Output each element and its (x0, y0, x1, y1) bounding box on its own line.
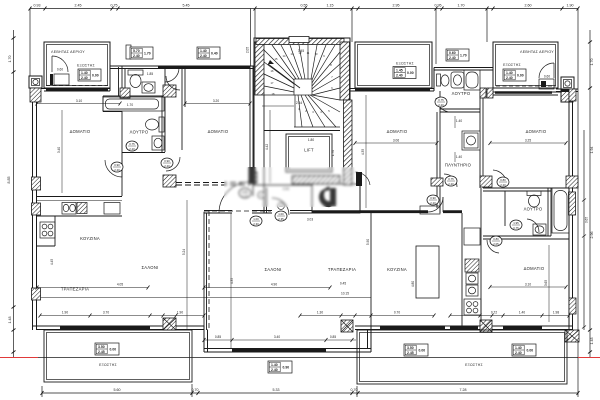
svg-text:ΕΞΩΣΤΗΣ: ΕΞΩΣΤΗΣ (503, 63, 521, 67)
right dimension line (589, 30, 591, 358)
svg-text:0.60: 0.60 (544, 75, 550, 79)
svg-text:0.60: 0.60 (57, 68, 63, 72)
svg-text:ΣΑΛΟΝΙ: ΣΑΛΟΝΙ (141, 265, 158, 270)
svg-text:0.90: 0.90 (164, 159, 170, 163)
door leaves (249, 167, 363, 186)
svg-text:0.70: 0.70 (394, 311, 400, 315)
top dimension line (30, 8, 578, 10)
svg-text:2.20: 2.20 (114, 168, 120, 172)
svg-text:4.90: 4.90 (271, 283, 277, 287)
landing square (294, 79, 312, 95)
svg-text:1.40: 1.40 (456, 119, 462, 123)
left apt: room1 walls (121, 66, 123, 96)
svg-text:0.80: 0.80 (493, 237, 499, 241)
slab edge line (38, 357, 578, 359)
right boiler room box (493, 42, 558, 88)
top mid wc fixtures (126, 45, 131, 59)
svg-text:ΔΟΜΑΤΙΟ: ΔΟΜΑΤΙΟ (208, 129, 229, 134)
svg-text:4.45: 4.45 (50, 259, 54, 265)
svg-text:1.70: 1.70 (331, 150, 335, 156)
svg-text:1.40: 1.40 (200, 49, 207, 53)
left apt kitchen counters (37, 215, 123, 217)
svg-text:ΠΛΥΝΤΗΡΙΟ: ΠΛΥΝΤΗΡΙΟ (445, 163, 472, 168)
svg-text:3.10: 3.10 (76, 99, 82, 103)
svg-text:0.45: 0.45 (340, 282, 346, 286)
left bath: sink top (142, 82, 155, 93)
vanity above island (420, 206, 440, 214)
middle bath tub (464, 70, 480, 90)
svg-text:2.30: 2.30 (253, 222, 259, 226)
svg-text:2.40: 2.40 (271, 368, 278, 372)
svg-text:ΕΞΩΣΤΗΣ: ΕΞΩΣΤΗΣ (77, 64, 95, 68)
svg-text:2.40: 2.40 (449, 56, 456, 60)
svg-text:0.93: 0.93 (34, 4, 41, 8)
svg-text:1.80: 1.80 (308, 138, 314, 142)
svg-text:ΚΟΥΖΙΝΑ: ΚΟΥΖΙΝΑ (80, 236, 100, 241)
dashed projection lines middle salon (204, 211, 271, 330)
svg-text:3.40: 3.40 (57, 147, 61, 153)
right kitchen column (464, 228, 480, 245)
middle bath wc (437, 74, 441, 86)
svg-text:0.75: 0.75 (111, 4, 118, 8)
top-left corner block (29, 76, 42, 88)
left boiler room box (44, 42, 110, 88)
svg-text:ΛΕΒΗΤΑΣ ΑΕΡΙΟΥ: ΛΕΒΗΤΑΣ ΑΕΡΙΟΥ (51, 50, 85, 54)
svg-text:2.35: 2.35 (278, 217, 284, 221)
svg-text:ΕΞΩΣΤΗΣ: ΕΞΩΣΤΗΣ (465, 363, 483, 367)
middle apt room3 walls (359, 184, 361, 213)
svg-text:1.00: 1.00 (253, 217, 259, 221)
svg-text:2.45: 2.45 (407, 351, 414, 355)
middle wc toilet (black) (319, 186, 334, 207)
svg-text:1.90: 1.90 (567, 4, 574, 8)
dim numbers left (7, 56, 12, 324)
svg-text:3.03: 3.03 (307, 218, 313, 222)
svg-text:ΔΟΜΑΤΙΟ: ΔΟΜΑΤΙΟ (70, 129, 91, 134)
svg-text:1.70: 1.70 (144, 52, 151, 56)
svg-text:2.20: 2.20 (448, 182, 454, 186)
svg-text:1.40: 1.40 (81, 71, 88, 75)
top wall under left boiler (31, 88, 110, 90)
room2 bottom dashed (176, 182, 250, 184)
svg-text:3.06: 3.06 (393, 139, 399, 143)
washing box (462, 131, 480, 150)
island middle kitchen (416, 246, 439, 298)
svg-text:3.20: 3.20 (213, 99, 219, 103)
dashed boiler bottoms (46, 85, 556, 88)
svg-text:3.50: 3.50 (407, 346, 414, 350)
svg-text:0.90: 0.90 (283, 366, 290, 370)
bottom exterior walls (33, 325, 205, 327)
svg-text:2.40: 2.40 (200, 54, 207, 58)
right cooktop (464, 299, 481, 315)
svg-text:0.00: 0.00 (527, 349, 534, 353)
svg-text:1.15: 1.15 (327, 4, 334, 8)
svg-text:1.45: 1.45 (396, 68, 403, 72)
svg-text:2.20: 2.20 (500, 183, 506, 187)
svg-text:ΔΟΜΑΤΙΟ: ΔΟΜΑΤΙΟ (387, 129, 408, 134)
svg-text:1.40: 1.40 (271, 363, 278, 367)
red lines (0, 357, 38, 359)
svg-text:ΛΟΥΤΡΟ: ΛΟΥΤΡΟ (524, 207, 543, 212)
svg-text:4.35: 4.35 (230, 278, 234, 284)
svg-text:1.40: 1.40 (519, 311, 525, 315)
washing machine (464, 133, 478, 148)
svg-text:0.00: 0.00 (110, 348, 117, 352)
right bath: wc (527, 191, 541, 196)
svg-text:0.00: 0.00 (92, 74, 99, 78)
appliance strip right kitchen (480, 188, 482, 326)
svg-text:1.70: 1.70 (127, 103, 133, 107)
stair core inner walls (263, 95, 265, 185)
svg-text:7.28: 7.28 (460, 388, 467, 392)
svg-text:2.20: 2.20 (129, 147, 135, 151)
left kitchen counter appliances (62, 203, 76, 215)
top wall mid (y=66) (110, 65, 256, 67)
middle kitchen right wall (461, 213, 463, 326)
right bath: sink (533, 224, 546, 235)
svg-text:2.20: 2.20 (438, 103, 444, 107)
top niche (289, 37, 309, 43)
svg-text:2.34: 2.34 (296, 101, 302, 105)
svg-text:3.25: 3.25 (525, 139, 531, 143)
top dim ticks (29, 7, 580, 11)
left cooktop (40, 222, 55, 238)
wall y=213 (204, 210, 232, 212)
svg-text:3.10: 3.10 (525, 283, 531, 287)
svg-text:1.70: 1.70 (458, 4, 465, 8)
X marks on some columns (163, 318, 579, 342)
svg-text:4.42: 4.42 (265, 144, 269, 150)
svg-text:2.05: 2.05 (246, 47, 250, 53)
svg-text:0.72: 0.72 (491, 311, 497, 315)
stair tread numbers (271, 51, 334, 114)
wall under top balcony / window (350, 88, 434, 90)
svg-text:1.40: 1.40 (515, 346, 522, 350)
svg-text:0.40: 0.40 (211, 52, 218, 56)
left exterior wall (double) (32, 76, 34, 330)
wall x=110 (109, 42, 111, 91)
lift box (286, 134, 332, 172)
fan treads radiating (264, 50, 294, 80)
svg-text:0.70: 0.70 (192, 388, 199, 392)
svg-text:5.70: 5.70 (133, 49, 140, 53)
svg-text:5.60: 5.60 (114, 388, 121, 392)
right exterior wall (568, 89, 570, 330)
svg-text:3.65: 3.65 (544, 280, 548, 286)
svg-text:1.94: 1.94 (590, 147, 594, 154)
svg-text:ΤΡΑΠΕΖΑΡΙΑ: ΤΡΑΠΕΖΑΡΙΑ (328, 267, 356, 272)
boiler L unit (54, 74, 69, 85)
svg-text:0.00: 0.00 (517, 74, 524, 78)
wall under right boiler (480, 91, 570, 93)
right apt walls (483, 187, 569, 189)
room2 right wall (249, 66, 251, 183)
middle kitchen divider x=371 (370, 213, 372, 326)
svg-text:1.90: 1.90 (62, 311, 68, 315)
svg-text:0.80: 0.80 (500, 178, 506, 182)
svg-text:1.48: 1.48 (8, 317, 12, 324)
dim numbers right (585, 59, 595, 345)
svg-text:1.98: 1.98 (553, 311, 559, 315)
svg-text:ΔΟΜΑΤΙΟ: ΔΟΜΑΤΙΟ (524, 266, 545, 271)
svg-text:1.70: 1.70 (8, 56, 12, 63)
left bath: tub (103, 97, 164, 111)
svg-text:0.85: 0.85 (330, 335, 336, 339)
dim numbers bottom (114, 388, 467, 392)
svg-text:1.95: 1.95 (513, 221, 519, 225)
svg-text:2.40: 2.40 (81, 76, 88, 80)
svg-text:5.33: 5.33 (273, 388, 280, 392)
svg-text:3.65: 3.65 (585, 217, 589, 223)
boiler R unit (539, 79, 554, 89)
left bath: wc top (128, 70, 143, 75)
left dimension line (13, 30, 15, 358)
svg-text:2.95: 2.95 (393, 4, 400, 8)
left bath: wc bottom (159, 117, 164, 132)
svg-text:2.40: 2.40 (515, 351, 522, 355)
svg-text:1.70: 1.70 (460, 54, 467, 58)
svg-text:0.70: 0.70 (351, 388, 358, 392)
svg-text:ΕΞΩΣΤΗΣ: ΕΞΩΣΤΗΣ (99, 363, 117, 367)
up arrow (268, 64, 300, 88)
svg-text:ΛΟΥΤΡΟ: ΛΟΥΤΡΟ (130, 130, 149, 135)
svg-text:3.70: 3.70 (103, 311, 109, 315)
gray ΕΞΩΣΤΗΣ labels (77, 62, 521, 368)
top-right corner block (561, 77, 574, 90)
hall right wall / room2 left (181, 69, 183, 151)
svg-text:1.48: 1.48 (590, 338, 594, 345)
svg-text:0.00: 0.00 (419, 349, 426, 353)
svg-text:4.35: 4.35 (361, 149, 365, 155)
svg-text:ΣΑΛΟΝΙ: ΣΑΛΟΝΙ (264, 267, 281, 272)
svg-text:0.90: 0.90 (430, 196, 436, 200)
left bath: sink bottom (152, 136, 164, 150)
svg-text:2.45: 2.45 (75, 4, 82, 8)
svg-text:2.60: 2.60 (525, 4, 532, 8)
bath divider walls (164, 69, 166, 97)
top balcony box (355, 42, 432, 88)
svg-text:1.30: 1.30 (317, 311, 323, 315)
svg-text:ΚΟΥΖΙΝΑ: ΚΟΥΖΙΝΑ (387, 267, 407, 272)
svg-text:0.85: 0.85 (215, 335, 221, 339)
svg-text:0.60: 0.60 (449, 51, 456, 55)
svg-text:2.40: 2.40 (506, 76, 513, 80)
svg-text:2.05: 2.05 (493, 242, 499, 246)
svg-text:5.45: 5.45 (183, 4, 190, 8)
svg-text:4.80: 4.80 (411, 281, 415, 287)
svg-text:0.75: 0.75 (438, 98, 444, 102)
svg-text:2.20: 2.20 (430, 201, 436, 205)
bottom dimension line (42, 392, 578, 394)
svg-text:1.85: 1.85 (147, 72, 153, 76)
svg-text:2.96: 2.96 (590, 232, 594, 239)
svg-text:2.40: 2.40 (396, 74, 403, 78)
svg-text:2.45: 2.45 (98, 350, 105, 354)
svg-text:0.95: 0.95 (435, 4, 442, 8)
svg-text:ΕΞΩΣΤΗΣ: ΕΞΩΣΤΗΣ (396, 62, 414, 66)
svg-text:0.55: 0.55 (301, 4, 308, 8)
wc box middle (312, 184, 360, 213)
svg-text:0.75: 0.75 (513, 226, 519, 230)
svg-text:8.85: 8.85 (7, 177, 11, 184)
svg-text:ΛΟΥΤΡΟ: ΛΟΥΤΡΟ (452, 91, 471, 96)
svg-text:4.05: 4.05 (117, 283, 123, 287)
svg-text:ΔΟΜΑΤΙΟ: ΔΟΜΑΤΙΟ (526, 129, 547, 134)
svg-text:1.90: 1.90 (177, 311, 183, 315)
svg-text:2.40: 2.40 (133, 54, 140, 58)
svg-text:LIFT: LIFT (304, 148, 314, 153)
svg-text:ΛΕΒΗΤΑΣ ΑΕΡΙΟΥ: ΛΕΒΗΤΑΣ ΑΕΡΙΟΥ (520, 50, 554, 54)
dim numbers top (34, 4, 574, 8)
corridor walls (479, 92, 481, 188)
stair core outer (254, 38, 350, 185)
svg-text:1.70: 1.70 (590, 59, 594, 66)
svg-text:3.45: 3.45 (298, 49, 304, 53)
svg-text:3.40: 3.40 (274, 335, 280, 339)
interior lines bottom left apt (37, 287, 149, 289)
svg-text:1.40: 1.40 (456, 155, 462, 159)
svg-text:3.50: 3.50 (98, 345, 105, 349)
svg-text:2.20: 2.20 (164, 164, 170, 168)
svg-text:ΤΡΑΠΕΖΑΡΙΑ: ΤΡΑΠΕΖΑΡΙΑ (61, 287, 89, 292)
middle bath (440, 111, 480, 113)
svg-text:1.00: 1.00 (278, 212, 284, 216)
svg-text:0.90: 0.90 (114, 163, 120, 167)
svg-text:0.75: 0.75 (129, 142, 135, 146)
svg-text:1.40: 1.40 (506, 71, 513, 75)
svg-text:5.24: 5.24 (182, 249, 186, 255)
top dim vertical refs (29, 9, 31, 77)
svg-text:0.00: 0.00 (407, 71, 414, 75)
svg-text:0.75: 0.75 (448, 177, 454, 181)
svg-text:10.15: 10.15 (341, 292, 349, 296)
right bath: tub (552, 188, 569, 233)
hall below stairs (264, 184, 312, 186)
svg-text:5.90: 5.90 (366, 239, 370, 245)
top wall right section (y=64) (434, 67, 493, 69)
